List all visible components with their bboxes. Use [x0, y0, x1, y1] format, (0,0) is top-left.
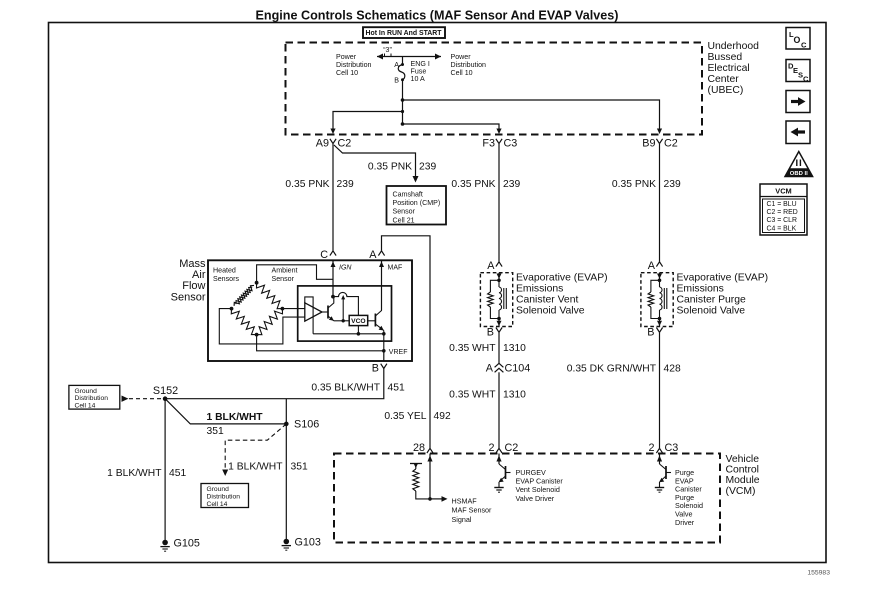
svg-text:A: A: [369, 249, 377, 261]
pin B EVAP canister vent solenoid valve: [496, 328, 502, 333]
connector B9 C2: [642, 137, 678, 149]
transistor driver PURGEV EVAP canister vent solenoid valve driver: [499, 464, 511, 487]
svg-text:C2: C2: [338, 137, 352, 149]
VCM dashed box: [334, 454, 720, 543]
svg-text:239: 239: [337, 179, 354, 190]
svg-text:B: B: [394, 76, 399, 84]
pin 2 C3: [656, 448, 662, 453]
wire Q2 emitter to VREF rail: [383, 331, 385, 351]
solenoid coil EVAP canister vent solenoid valve: [499, 280, 506, 318]
wire to B9 drop: [403, 100, 663, 134]
svg-text:HeatedSensors: HeatedSensors: [213, 267, 239, 284]
wire vent valve B to C104: [498, 332, 500, 363]
resistor bridge (bottom-right): [257, 309, 283, 335]
dashed wire to ground distribution 1: [122, 396, 163, 402]
wire to A9 drop: [330, 112, 402, 135]
svg-text:0.35 PNK: 0.35 PNK: [285, 179, 329, 190]
ground distribution box 2: [201, 484, 249, 508]
svg-text:451: 451: [388, 383, 405, 394]
wire to F3 drop: [403, 124, 502, 134]
svg-text:239: 239: [664, 179, 681, 190]
label 0.35 DK GRN/WHT 428: [567, 364, 681, 375]
label 0.35 YEL 492: [384, 411, 451, 422]
label 0.35 WHT 1310 upper: [449, 343, 526, 354]
svg-text:F3: F3: [482, 137, 495, 149]
svg-text:155983: 155983: [807, 570, 830, 577]
svg-text:0.35 PNK: 0.35 PNK: [368, 162, 412, 173]
svg-text:A: A: [486, 362, 494, 374]
pin 2 C2: [496, 448, 502, 453]
node bridge left: [230, 307, 234, 311]
svg-text:AmbientSensor: AmbientSensor: [272, 267, 298, 284]
op-amp U1: [305, 303, 322, 321]
svg-text:351: 351: [291, 461, 308, 472]
svg-text:451: 451: [169, 468, 186, 479]
svg-text:239: 239: [503, 179, 520, 190]
svg-text:C104: C104: [505, 362, 531, 374]
VCM connector legend table: [760, 184, 807, 235]
connector A9 C2: [316, 137, 352, 149]
pin A EVAP canister vent solenoid valve: [496, 262, 502, 267]
junction dot: [401, 98, 405, 102]
node bridge top: [255, 281, 259, 285]
CMP sensor box: [387, 186, 447, 225]
label 1 BLK/WHT 351 diagonal: [207, 412, 264, 437]
label 0.35 PNK 239 middle: [451, 179, 520, 190]
wire Q1 emitter rail to VCO: [334, 295, 349, 322]
wire bridge right to opamp input: [282, 308, 304, 310]
splice S106: [284, 422, 289, 427]
label 1 BLK/WHT 351 vertical: [228, 461, 308, 472]
svg-text:1310: 1310: [503, 390, 526, 401]
svg-text:B: B: [372, 362, 379, 374]
svg-text:“3”: “3”: [383, 47, 392, 54]
pin 28: [427, 448, 433, 453]
svg-text:2: 2: [648, 442, 654, 454]
svg-text:VCM: VCM: [775, 187, 791, 196]
pin C: [330, 251, 336, 256]
svg-text:G105: G105: [174, 537, 200, 549]
ground purge EVAP canister purge solenoid valve driver: [655, 488, 664, 493]
icon back arrow button: [786, 121, 810, 144]
transistor Q1: [322, 297, 334, 321]
svg-text:1 BLK/WHT: 1 BLK/WHT: [228, 461, 283, 472]
svg-text:B: B: [487, 326, 494, 338]
svg-text:351: 351: [207, 426, 224, 437]
svg-text:C3: C3: [504, 137, 518, 149]
resistor bridge heated sensor 1 (top-left): [234, 283, 257, 306]
icon DESC button: [786, 60, 810, 84]
wire VREF rail: [257, 335, 386, 353]
svg-text:0.35 WHT: 0.35 WHT: [449, 343, 496, 354]
svg-text:2: 2: [488, 442, 494, 454]
svg-text:A: A: [648, 260, 656, 272]
wire bridge left to opamp inverting input: [219, 309, 304, 344]
svg-text:1 BLK/WHT: 1 BLK/WHT: [207, 412, 264, 423]
svg-text:S152: S152: [153, 385, 178, 397]
bus line with arrows to Power Distribution: [377, 54, 441, 60]
svg-text:492: 492: [434, 411, 451, 422]
node bridge right: [281, 307, 285, 311]
resistor EVAP canister vent solenoid valve: [488, 280, 499, 318]
svg-text:0.35 BLK/WHT: 0.35 BLK/WHT: [311, 383, 380, 394]
resistor HSMAF pull-up: [410, 463, 430, 499]
wire IGN entry with up arrow: [331, 260, 336, 296]
wire feedback to opamp: [305, 297, 313, 334]
svg-text:C: C: [803, 75, 809, 84]
EVAP canister vent solenoid valve dashed box: [480, 273, 512, 327]
solenoid coil EVAP canister purge solenoid valve: [660, 280, 667, 318]
svg-text:C: C: [801, 41, 807, 50]
transistor Q2: [368, 309, 384, 331]
wire B9 to EVAP purge valve: [659, 144, 661, 262]
svg-text:1310: 1310: [503, 343, 526, 354]
junction dot: [401, 122, 405, 126]
svg-text:0.35 PNK: 0.35 PNK: [451, 179, 495, 190]
svg-text:B9: B9: [642, 137, 655, 149]
wire A9 to MAF C pin: [332, 144, 334, 251]
wire C104 to VCM pin 2 C2: [498, 372, 500, 448]
junction dot: [401, 110, 404, 113]
splice S152: [163, 396, 168, 401]
svg-text:0.35 PNK: 0.35 PNK: [612, 179, 656, 190]
svg-text:G103: G103: [295, 536, 321, 548]
svg-text:A: A: [394, 61, 399, 69]
node pin28 junction: [428, 497, 432, 501]
svg-text:B: B: [647, 326, 654, 338]
resistor EVAP canister purge solenoid valve: [648, 280, 659, 318]
node Q2 emitter junction: [382, 332, 386, 336]
wire MAF B to S152 ground rail: [165, 369, 384, 399]
pin A EVAP canister purge solenoid valve: [656, 262, 662, 267]
wire pin 28 into VCM with up arrow: [427, 454, 432, 499]
svg-text:28: 28: [413, 442, 425, 454]
resistor ambient sensor (top-right): [257, 283, 283, 309]
resistor bridge (bottom-left): [231, 309, 256, 335]
svg-text:VREF: VREF: [389, 349, 408, 356]
svg-text:0.35 YEL: 0.35 YEL: [384, 411, 426, 422]
pin B: [381, 364, 387, 369]
wire IGN junction to VCO top with hop: [333, 292, 358, 315]
wire branch to CMP: [334, 145, 419, 183]
svg-text:A: A: [487, 260, 495, 272]
MAF sensor box: [208, 260, 412, 361]
icon LOC button: [786, 28, 810, 50]
label 1 BLK/WHT 451: [107, 468, 186, 479]
svg-text:C1 = BLUC2 = REDC3 = CLRC4 = B: C1 = BLUC2 = REDC3 = CLRC4 = BLK: [767, 201, 798, 232]
ground G103: [282, 536, 321, 550]
svg-text:A9: A9: [316, 137, 329, 149]
icon OBD II warning triangle: [785, 152, 813, 178]
wire valve exit: [657, 317, 662, 327]
wire rail to G103: [285, 399, 287, 540]
label 0.35 PNK 239 left: [285, 179, 354, 190]
svg-text:MAF: MAF: [388, 265, 403, 272]
svg-text:Hot In RUN And START: Hot In RUN And START: [366, 28, 442, 37]
icon next arrow button: [786, 91, 810, 113]
transistor driver purge EVAP canister purge solenoid valve driver: [659, 464, 671, 487]
svg-text:C: C: [320, 249, 328, 261]
svg-text:C2: C2: [664, 137, 678, 149]
wire VREF to pin B: [383, 351, 385, 361]
svg-text:S106: S106: [294, 419, 319, 431]
svg-text:428: 428: [664, 364, 681, 375]
wire MAF entry with up arrow: [379, 260, 384, 309]
label 0.35 PNK 239 right: [612, 179, 681, 190]
EVAP canister purge solenoid valve dashed box: [641, 273, 673, 327]
fuse ENG 10A: [398, 57, 405, 82]
ground PURGEV EVAP canister vent solenoid valve driver: [494, 488, 503, 493]
wire valve entry: [657, 273, 662, 282]
label 0.35 PNK 239 branch: [368, 162, 437, 173]
wire bottom rail: [313, 333, 384, 335]
wire purge valve B to VCM pin 2 C3: [659, 332, 661, 448]
wire fuse B down: [402, 80, 404, 124]
dashed wire S106 to ground distribution 2: [222, 424, 286, 476]
node bridge bottom: [255, 333, 259, 337]
label Hot In RUN And START: [363, 27, 445, 38]
wire pin into VCM with up arrow: [657, 454, 662, 465]
ground G105: [160, 537, 200, 551]
svg-text:IGN: IGN: [339, 265, 352, 272]
wire S152 to S106: [165, 399, 286, 424]
svg-text:Engine Controls Schematics (MA: Engine Controls Schematics (MAF Sensor A…: [256, 9, 619, 23]
svg-text:OBD II: OBD II: [790, 171, 808, 177]
svg-text:O: O: [794, 35, 801, 45]
wire MAF signal to VCM pin 28: [382, 236, 431, 448]
svg-text:VCO: VCO: [351, 318, 366, 325]
svg-text:C3: C3: [665, 442, 679, 454]
svg-text:VehicleControlModule(VCM): VehicleControlModule(VCM): [726, 454, 760, 497]
svg-text:0.35 DK GRN/WHT: 0.35 DK GRN/WHT: [567, 364, 657, 375]
svg-text:1 BLK/WHT: 1 BLK/WHT: [107, 468, 162, 479]
wire bridge top to IGN: [257, 265, 333, 283]
connector F3 C3: [482, 137, 517, 149]
wire S152 to G105: [164, 399, 166, 541]
label 0.35 BLK/WHT 451: [311, 383, 405, 394]
svg-text:C2: C2: [505, 442, 519, 454]
pin A: [378, 251, 384, 256]
ground distribution box 1: [69, 385, 120, 409]
wire valve exit: [497, 317, 502, 327]
svg-text:239: 239: [419, 162, 436, 173]
wire pin into VCM with up arrow: [496, 454, 501, 465]
MAF inner circuit box: [298, 286, 392, 341]
wire valve entry: [497, 273, 502, 282]
UBEC dashed box: [286, 43, 703, 135]
wire F3 to EVAP vent valve: [498, 144, 500, 262]
wire VCO bottom to rail: [357, 326, 361, 336]
label 0.35 WHT 1310 lower: [449, 390, 526, 401]
connector C104: [486, 362, 531, 374]
node IGN junction: [331, 295, 335, 299]
svg-text:0.35 WHT: 0.35 WHT: [449, 390, 496, 401]
VCO box: [349, 315, 368, 325]
pin B EVAP canister purge solenoid valve: [656, 328, 662, 333]
wire HSMAF signal arrow: [430, 496, 448, 502]
